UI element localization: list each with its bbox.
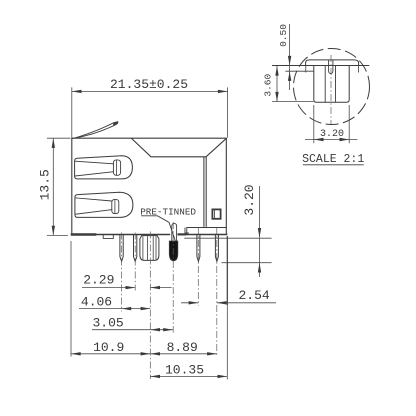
svg-text:4.06: 4.06 <box>81 294 112 309</box>
post inner walls <box>325 66 335 103</box>
pre-tinned pin stem <box>172 223 177 241</box>
detail centerline <box>330 55 332 124</box>
detail circle dashed <box>294 49 370 125</box>
small block right of blob <box>179 233 186 235</box>
cap <box>306 60 359 66</box>
detail view <box>272 49 370 125</box>
pre-tinned pin black blob <box>169 241 178 261</box>
center slit <box>329 60 333 74</box>
4.06 arrows <box>122 307 132 310</box>
dim 21.35 lines <box>72 87 228 137</box>
3.60 arrows <box>275 66 278 76</box>
svg-text:3.05: 3.05 <box>92 316 123 331</box>
3.20 right arrows (outside) <box>258 228 261 238</box>
dim 3.20 right vertical <box>259 186 261 277</box>
svg-text:2.54: 2.54 <box>238 288 269 303</box>
bottom edge <box>72 234 227 236</box>
10.9 arrows <box>71 352 81 355</box>
svg-text:21.35±0.25: 21.35±0.25 <box>110 77 188 92</box>
2.29 arrows (outside) <box>126 286 136 289</box>
pin 2 <box>134 235 137 261</box>
bottom plate right <box>185 228 226 235</box>
3.05 arrows <box>150 328 160 331</box>
dim 13.5 lines <box>47 138 71 235</box>
pin 1 <box>120 235 123 261</box>
svg-text:3.60: 3.60 <box>262 74 273 97</box>
right ext lines <box>184 238 271 263</box>
post outline <box>314 66 349 103</box>
ledge line <box>285 70 313 72</box>
svg-text:13.5: 13.5 <box>38 169 53 200</box>
base line <box>272 65 369 67</box>
leader PRE-TINNED <box>141 216 175 241</box>
3.20 detail arrows <box>314 138 324 141</box>
centerlines dash-dot <box>122 222 217 379</box>
svg-text:2.29: 2.29 <box>83 273 114 288</box>
body outline <box>72 138 227 234</box>
svg-text:PRE-TINNED: PRE-TINNED <box>140 206 196 217</box>
3.20 detail <box>305 105 358 143</box>
standoff boss <box>103 235 113 238</box>
svg-text:8.89: 8.89 <box>167 340 198 355</box>
arrowheads <box>52 90 262 378</box>
cap end hidden edges <box>306 66 359 73</box>
svg-text:3.20: 3.20 <box>320 129 344 140</box>
svg-text:10.35: 10.35 <box>165 362 204 377</box>
detail dimensions <box>272 24 358 143</box>
3.60 <box>272 66 314 102</box>
board lock square <box>212 209 220 218</box>
latch spring <box>72 125 115 138</box>
svg-text:3.20: 3.20 <box>242 184 257 215</box>
foot block left <box>72 233 95 236</box>
svg-text:0.50: 0.50 <box>278 24 289 47</box>
0.50 arrows <box>288 56 291 66</box>
21.35 arrows <box>72 90 82 93</box>
svg-text:10.9: 10.9 <box>93 340 124 355</box>
back wall double line <box>204 157 206 226</box>
dimension graphics <box>47 87 276 379</box>
right pin B <box>215 234 218 261</box>
right edge extension down <box>226 236 228 305</box>
13.5 arrows <box>52 138 55 148</box>
10.35 arrows <box>150 375 160 378</box>
2.54 arrows (outside) <box>189 301 199 304</box>
0.50 <box>289 24 291 90</box>
right pin A <box>197 234 200 261</box>
8.89 arrows <box>150 352 160 355</box>
solder post <box>140 236 159 261</box>
dim rows <box>82 287 172 289</box>
svg-text:SCALE 2:1: SCALE 2:1 <box>302 153 364 166</box>
scale note underline <box>303 164 364 166</box>
latch finger 1 <box>75 156 133 179</box>
top face band chamfers <box>132 138 227 156</box>
latch finger 2 <box>75 192 133 217</box>
